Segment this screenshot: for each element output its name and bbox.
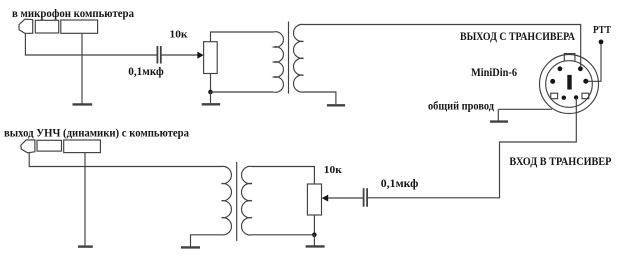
svg-text:10к: 10к (170, 29, 189, 41)
wire junction to T1 primary bottom (211, 91, 274, 93)
MiniDin shield tab top (564, 54, 575, 62)
jack J2 tip (21, 140, 35, 153)
svg-text:PTT: PTT (593, 24, 612, 36)
wire J2 sleeve to ground (84, 153, 86, 246)
wire junction to ground (313, 235, 315, 246)
junction dot (R1 / T1 / ground) (208, 90, 213, 95)
svg-text:0,1мкф: 0,1мкф (128, 64, 164, 78)
MiniDin shield notch right (582, 93, 589, 99)
svg-text:0,1мкф: 0,1мкф (381, 176, 419, 190)
wire common to ground (497, 109, 499, 120)
MiniDin-6 connector outer shell (540, 55, 599, 114)
MiniDin-6 connector inner shell (546, 61, 593, 108)
MiniDin pin 2 (top-right) (578, 66, 583, 71)
wire R2 bottom to junction (313, 215, 315, 235)
MiniDin key slot (567, 75, 571, 90)
transformer T1 primary winding (274, 32, 284, 93)
MiniDin pin 6 (bottom-right) (574, 95, 578, 99)
wire T2 secondary bottom to junction (252, 234, 314, 236)
transformer T2 secondary winding (241, 166, 252, 235)
ground (J2) (78, 245, 93, 247)
wire J1 tip to C1 (25, 33, 156, 55)
wire T1 secondary bottom to ground (304, 92, 336, 104)
capacitor C2 0,1мкф (364, 188, 368, 207)
wire T2 primary bottom to ground (191, 235, 222, 247)
ground (J1) (73, 103, 93, 105)
transformer T2 core (236, 162, 238, 241)
wiper arrow into R2 (322, 195, 328, 202)
svg-text:MiniDin-6: MiniDin-6 (471, 67, 517, 79)
ground (common) (490, 120, 508, 122)
svg-text:в микрофон компьютера: в микрофон компьютера (12, 6, 134, 20)
ground (R1) (202, 103, 221, 105)
wire C1 to R1 wiper (161, 54, 197, 56)
wire T2 secondary top to R2 (252, 167, 314, 185)
MiniDin pin 4 (mid-right) (583, 79, 588, 84)
svg-text:выход УНЧ (динамики) с компьют: выход УНЧ (динамики) с компьютера (4, 126, 189, 140)
jack J1 sleeve (61, 20, 98, 33)
svg-text:общий провод: общий провод (428, 99, 494, 113)
wire J2 tip to T2 primary (29, 153, 221, 167)
wire C2 to R2 wiper (328, 197, 363, 199)
transformer T2 primary winding (222, 166, 232, 235)
capacitor C1 0,1мкф (157, 46, 160, 64)
wire junction to ground (210, 92, 212, 103)
jack J1 ring (35, 20, 58, 33)
MiniDin pin 3 (mid-left) (550, 79, 555, 84)
transformer T1 core (288, 22, 290, 94)
jack J2 sleeve (64, 140, 101, 153)
MiniDin pin 5 (bottom-left) (562, 96, 566, 100)
PTT terminal dot (599, 40, 604, 45)
ground (T2 primary) (181, 246, 200, 248)
wiper arrow into R1 (197, 52, 203, 59)
svg-text:ВЫХОД С ТРАНСИВЕРА: ВЫХОД С ТРАНСИВЕРА (460, 29, 575, 43)
transformer T1 secondary winding (293, 24, 303, 92)
wire R1 bottom to junction (210, 74, 212, 93)
MiniDin pin 1 (top-left) (558, 66, 563, 71)
jack J1 tip (19, 19, 33, 33)
MiniDin shield notch left (551, 93, 558, 99)
ground (R2) (306, 245, 325, 247)
jack J2 ring (37, 140, 62, 151)
svg-text:ВХОД В ТРАНСИВЕР: ВХОД В ТРАНСИВЕР (509, 156, 611, 168)
wire T1 secondary top to MiniDin (ВЫХОД С ТРАНСИВЕРА) (304, 25, 581, 68)
wire MiniDin pin 6 to C2 (ВХОД В ТРАНСИВЕР) (368, 98, 577, 198)
svg-text:10к: 10к (324, 164, 343, 176)
wire J1 sleeve to ground (81, 33, 83, 103)
wire PTT to MiniDin pin (587, 44, 602, 81)
junction dot (R2 / T2 / ground) (312, 233, 317, 238)
potentiometer R2 10к body (307, 184, 321, 215)
ground (T1 secondary) (327, 104, 345, 106)
potentiometer R1 10к body (204, 42, 218, 74)
wire common to MiniDin shell (498, 108, 552, 110)
wire R1 top to T1 primary (211, 32, 274, 42)
